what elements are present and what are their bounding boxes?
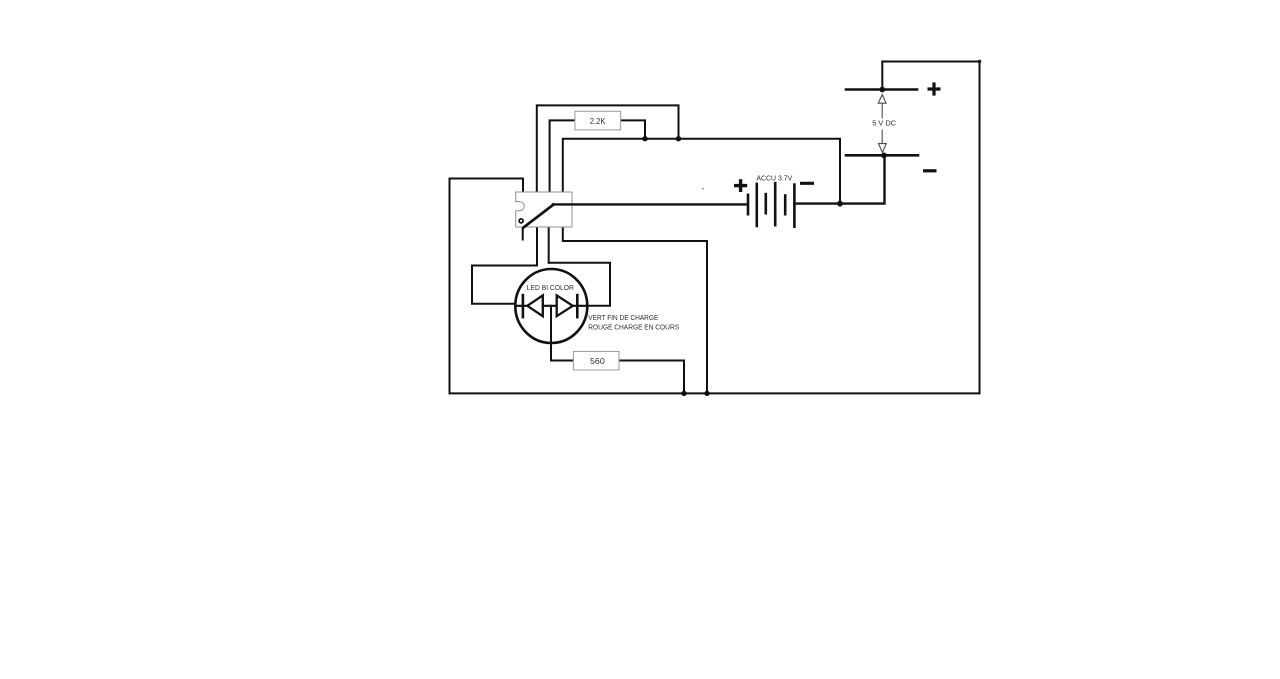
svg-text:ACCU 3.7V: ACCU 3.7V	[756, 174, 792, 183]
svg-text:2.2K: 2.2K	[590, 117, 607, 126]
svg-text:ROUGE CHARGE EN COURS: ROUGE CHARGE EN COURS	[588, 325, 679, 332]
svg-text:LED BI COLOR: LED BI COLOR	[527, 283, 574, 292]
svg-text:560: 560	[590, 357, 606, 366]
svg-text:5 V DC: 5 V DC	[872, 118, 897, 127]
svg-text:VERT FIN DE CHARGE: VERT FIN DE CHARGE	[588, 315, 658, 322]
